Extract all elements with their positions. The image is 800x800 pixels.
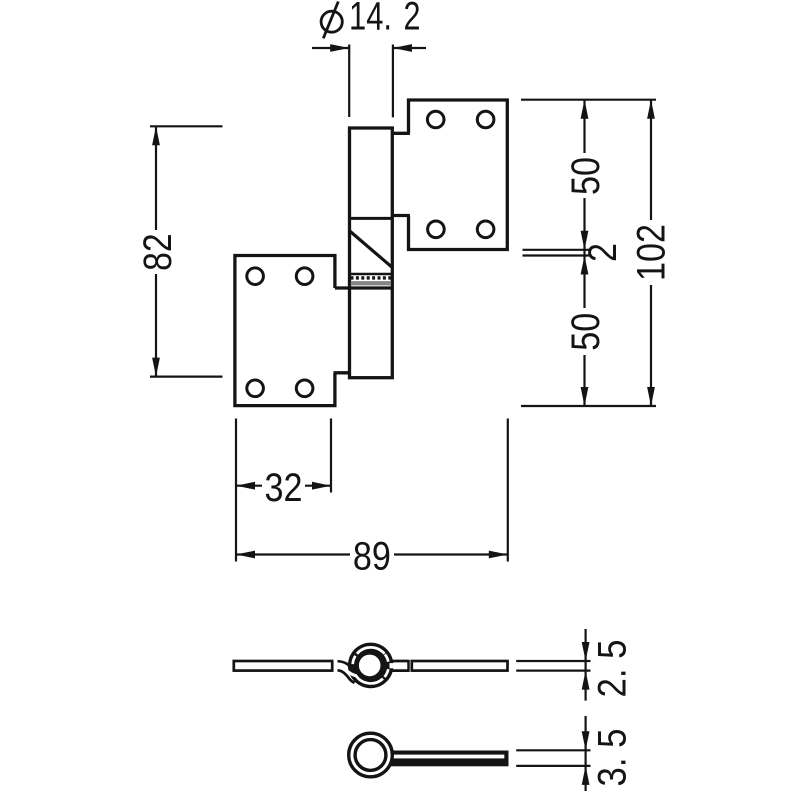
right leaf plate	[409, 100, 508, 250]
right leaf hole bottom-right	[477, 221, 494, 238]
side view A right stub top line	[390, 660, 409, 663]
arrow 102 bottom (points down)	[647, 387, 655, 406]
label 32	[265, 466, 303, 510]
label 102	[629, 224, 673, 281]
dimension 2.5 lower tail	[584, 671, 586, 701]
dimension 82 line upper segment	[155, 126, 157, 230]
right leaf bottom junction line	[391, 214, 410, 217]
dimension 2.5 lower extension line	[516, 669, 590, 671]
svg-text:2: 2	[581, 243, 625, 262]
side view B bar white stripe	[390, 755, 504, 759]
dimension 89 line left segment	[236, 553, 350, 555]
side view A knuckle body disc	[348, 643, 394, 689]
dimension 3.5 lower extension line	[516, 765, 590, 767]
side view A right bar	[412, 661, 508, 671]
arrow 89 left (points left)	[236, 551, 255, 559]
side view A left bar	[234, 661, 332, 671]
arrow 102 top (points up)	[647, 100, 655, 119]
arrow 82 bottom (points down)	[152, 358, 160, 377]
arrow 50a top (points up)	[581, 100, 589, 119]
right leaf top junction line	[391, 132, 410, 135]
barrel dotted hatch strip	[351, 276, 392, 279]
phi symbol	[321, 2, 342, 39]
arrow 32 left (points left)	[236, 482, 255, 490]
label 89	[353, 535, 391, 579]
label 3.5	[590, 729, 634, 787]
side view A knuckle white arc upper-left	[353, 656, 356, 664]
svg-text:3. 5: 3. 5	[590, 729, 634, 787]
svg-text:14.: 14.	[349, 0, 392, 39]
dimension 102 line lower segment	[650, 285, 652, 406]
dimension 2.5 upper tail	[584, 629, 586, 661]
dimension 50b line lower segment	[583, 355, 585, 406]
svg-text:2: 2	[404, 0, 421, 39]
label 50 upper	[564, 157, 608, 195]
dimension 89 right extension line	[507, 419, 509, 562]
side view A right stub white slit	[390, 663, 409, 668]
side view A right stub bottom line	[390, 669, 409, 672]
svg-text:50: 50	[564, 157, 608, 195]
dimension 3.5 upper extension line	[516, 749, 590, 751]
barrel washer bottom line (extends to left leaf junction)	[335, 286, 392, 289]
2mm gap lower extension line	[523, 254, 590, 256]
dimension 32 left extension line	[235, 419, 237, 562]
right leaf hole bottom-left	[428, 221, 445, 238]
dimension 32 line right segment	[305, 485, 331, 487]
barrel divider line	[348, 217, 392, 220]
right dims bottom extension line	[521, 405, 656, 407]
label 50 lower	[564, 313, 608, 351]
label 2.5	[590, 640, 634, 698]
dimension 3.5 lower tail	[584, 766, 586, 791]
side view A knuckle pin hole	[359, 655, 381, 677]
side view A knuckle white arc lower-right	[385, 669, 389, 677]
2mm gap upper extension line	[523, 249, 590, 251]
left leaf hole bottom-right	[296, 380, 313, 397]
right leaf hole top-right	[477, 111, 494, 128]
svg-text:50: 50	[564, 313, 608, 351]
svg-text:89: 89	[353, 535, 391, 579]
dimension 50a line upper segment	[583, 100, 585, 153]
dimension 50b line upper segment	[583, 256, 585, 309]
arrow phi left (points right)	[330, 44, 349, 52]
dimension 2.5 between segment	[584, 661, 586, 671]
barrel (pin housing) outline	[350, 128, 393, 378]
right dims top extension line	[521, 99, 656, 101]
dimension 82 bottom extension line	[150, 376, 223, 378]
barrel diagonal (pin)	[350, 231, 392, 267]
dimension 2.5 upper extension line	[516, 660, 590, 662]
dimension 3.5 upper tail	[584, 716, 586, 750]
svg-text:32: 32	[265, 466, 303, 510]
arrow 3.5 upper (points down)	[582, 731, 590, 750]
side view A knuckle white arc upper-right	[385, 654, 388, 661]
barrel washer top line	[348, 273, 392, 276]
arrow 3.5 lower (points up)	[582, 766, 590, 785]
left leaf plate	[235, 256, 335, 406]
dimension phi14.2 extension line left	[348, 45, 350, 118]
svg-text:2. 5: 2. 5	[590, 640, 634, 698]
arrow 2.5 lower (points up)	[582, 671, 590, 690]
dimension 89 line right segment	[394, 553, 508, 555]
dimension 32 line left segment	[236, 485, 262, 487]
dimension 32 right extension line	[330, 419, 332, 493]
label 2	[581, 243, 625, 262]
arrow 50a bottom (points down)	[581, 231, 589, 250]
label 82	[136, 233, 180, 271]
arrow 2.5 upper (points down)	[582, 642, 590, 661]
side view A left slit white channel	[334, 666, 357, 676]
arrow 32 right (points right)	[312, 482, 331, 490]
dimension 3.5 between segment	[584, 750, 586, 766]
side view A left stub bottom curve	[338, 670, 355, 683]
dimension 50a line lower segment	[583, 198, 585, 250]
arrow 50b bottom (points down)	[581, 387, 589, 406]
left leaf hole top-left	[247, 268, 264, 285]
arrow 89 right (points right)	[489, 551, 508, 559]
dimension phi14.2 extension line right	[392, 45, 394, 118]
right leaf hole top-left	[427, 111, 444, 128]
dimension 102 line upper segment	[650, 100, 652, 220]
svg-text:82: 82	[136, 233, 180, 271]
side view A knuckle white arc bottom	[356, 675, 383, 683]
dimension 82 line lower segment	[155, 274, 157, 377]
side view B bar black body	[388, 751, 509, 767]
svg-text:102: 102	[629, 224, 673, 281]
arrow 2 lower (points up, below gap)	[581, 256, 589, 275]
dimension phi14.2 line left tail	[312, 47, 349, 49]
side view A left stub top curve	[338, 661, 352, 668]
side view B eye inner circle	[355, 740, 386, 771]
dimension 82 top extension line	[150, 125, 223, 127]
side view B eye outer circle	[349, 733, 393, 777]
left leaf hole bottom-left	[247, 380, 264, 397]
side view B eye white annulus	[352, 736, 389, 773]
side view A right stub end cap	[407, 660, 410, 672]
left leaf hole top-right	[296, 268, 313, 285]
dimension 2 between-lines segment	[583, 250, 585, 256]
left leaf bottom junction line	[334, 371, 351, 374]
barrel gray band	[351, 281, 391, 285]
arrow phi right (points left)	[393, 44, 412, 52]
arrow 82 top (points up)	[152, 126, 160, 145]
side view A knuckle white arc top	[357, 647, 385, 653]
label 14.2	[349, 0, 421, 39]
dimension phi14.2 line right tail	[393, 47, 426, 49]
